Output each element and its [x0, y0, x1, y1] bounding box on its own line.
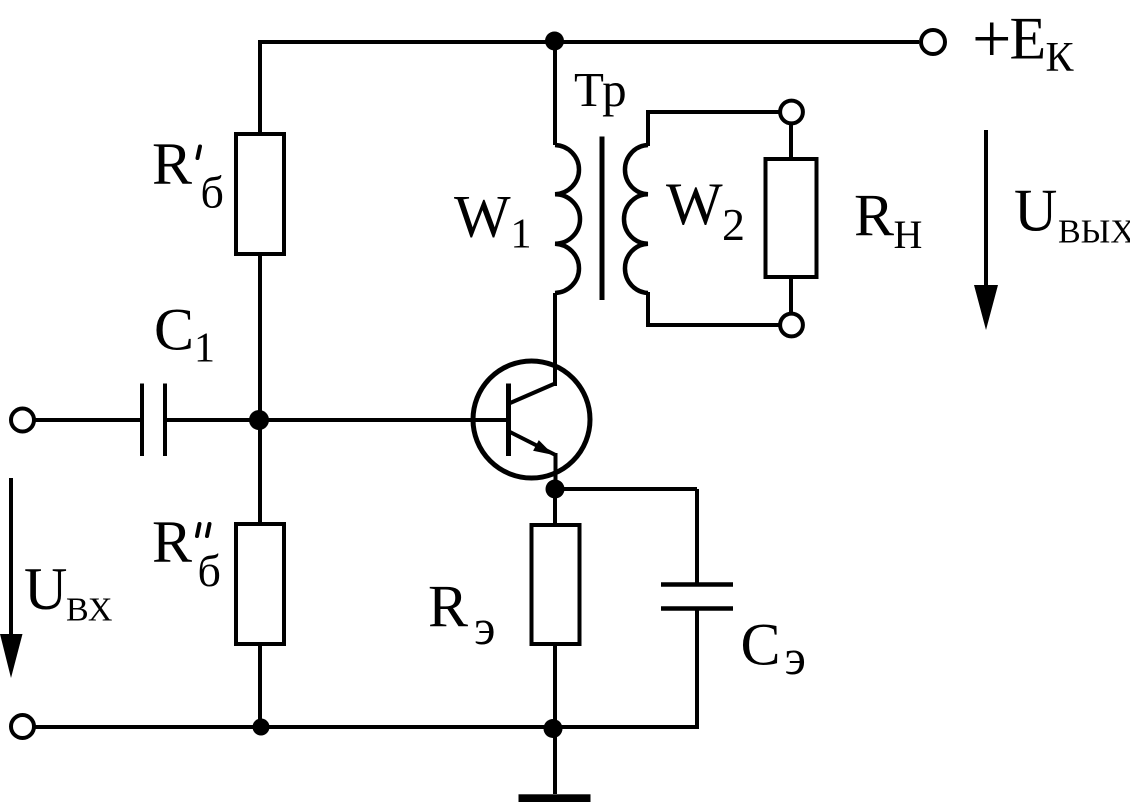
- svg-text:Е: Е: [1010, 5, 1047, 71]
- svg-text:2: 2: [722, 199, 745, 250]
- svg-text:R: R: [854, 183, 894, 249]
- svg-text:ВХ: ВХ: [66, 592, 112, 629]
- svg-text:б: б: [201, 167, 224, 218]
- svg-text:C: C: [741, 612, 781, 678]
- svg-text:U: U: [1014, 178, 1057, 244]
- svg-text:1: 1: [194, 326, 215, 372]
- svg-text:1: 1: [511, 212, 532, 258]
- svg-text:R: R: [428, 573, 468, 639]
- svg-text:R: R: [152, 509, 192, 575]
- svg-text:э: э: [474, 599, 495, 655]
- svg-text:ВЫХ: ВЫХ: [1058, 214, 1130, 251]
- svg-text:U: U: [24, 556, 67, 622]
- svg-text:W: W: [454, 183, 511, 249]
- svg-text:W: W: [666, 171, 723, 237]
- svg-text:R: R: [152, 131, 192, 197]
- svg-text:К: К: [1046, 35, 1075, 81]
- svg-text:C: C: [154, 297, 194, 363]
- svg-text:б: б: [198, 545, 221, 596]
- svg-text:э: э: [785, 629, 806, 685]
- svg-text:Н: Н: [894, 212, 923, 257]
- svg-text:Тр: Тр: [574, 62, 627, 117]
- svg-text:+: +: [972, 1, 1011, 78]
